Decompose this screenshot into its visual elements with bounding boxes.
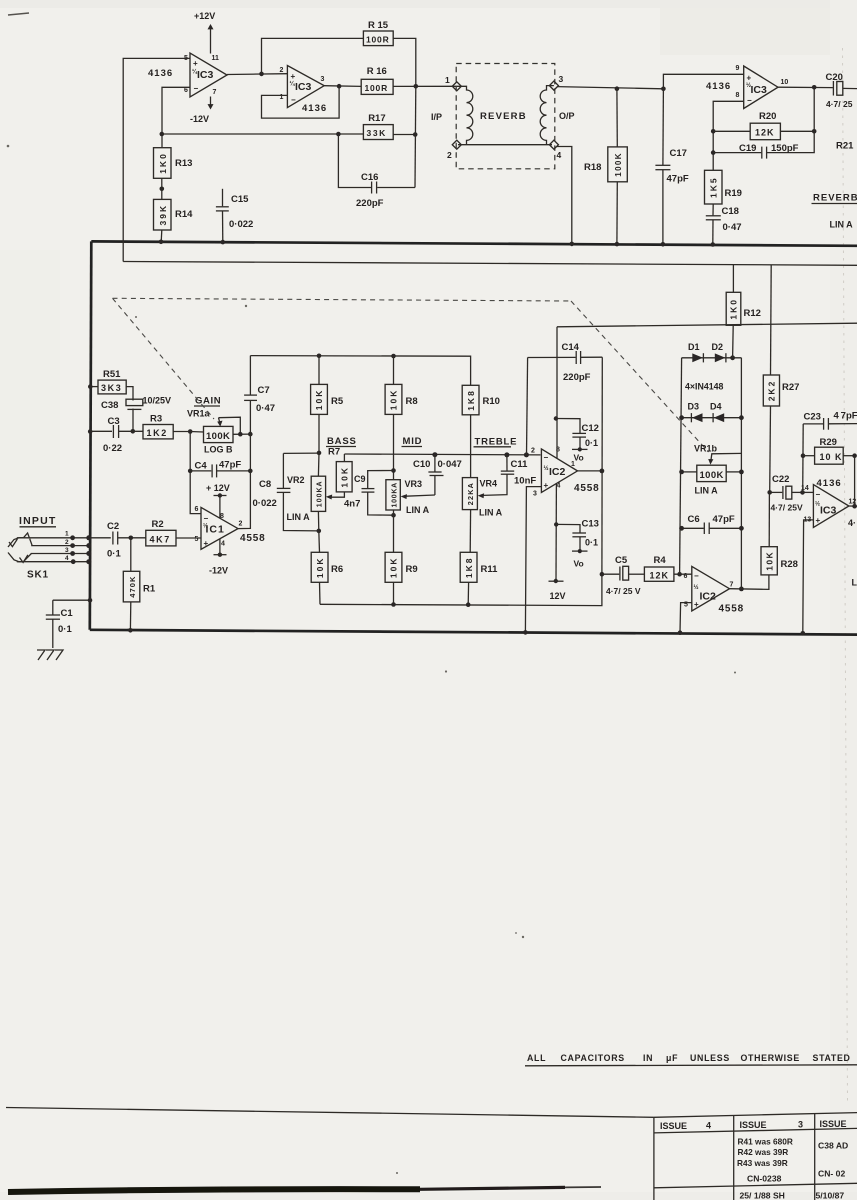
svg-text:C17: C17 (670, 148, 687, 159)
svg-text:−: − (694, 572, 699, 581)
svg-text:½: ½ (815, 501, 820, 508)
node on screen wall (88, 598, 93, 603)
note ALL CAPACITORS IN uF (525, 1053, 857, 1066)
svg-text:C3: C3 (108, 416, 120, 427)
wire tone input bus (250, 356, 470, 386)
svg-text:Vo: Vo (574, 453, 584, 463)
node IC3b output (337, 84, 342, 89)
+12V supply IC3a (194, 11, 215, 54)
node IC2a output (600, 469, 605, 474)
svg-text:4136: 4136 (817, 478, 842, 489)
wire drive node vertical (414, 86, 417, 187)
capacitor C7 (244, 356, 275, 414)
svg-text:STATED: STATED (813, 1053, 851, 1063)
svg-text:IC2: IC2 (549, 466, 566, 478)
svg-text:R43 was 39R: R43 was 39R (737, 1158, 788, 1168)
reverb transducer dashed box (456, 64, 555, 169)
svg-text:39K: 39K (158, 204, 168, 226)
wire reverb pin4 to ground bus (557, 147, 572, 244)
svg-text:C16: C16 (361, 172, 378, 183)
svg-text:1K0: 1K0 (158, 152, 168, 174)
svg-text:I/P: I/P (431, 112, 442, 122)
svg-text:R8: R8 (406, 396, 418, 407)
svg-text:C20: C20 (826, 72, 843, 83)
node pin4 ground (570, 242, 575, 247)
svg-text:R51: R51 (103, 369, 121, 380)
svg-text:3: 3 (559, 74, 564, 84)
wire IC3b output (324, 85, 361, 88)
capacitor C12 (554, 416, 599, 462)
node IC3c output (812, 85, 817, 90)
SK1 contact nodes column 2 (on screen wall) (86, 535, 91, 564)
potentiometer VR1a (190, 426, 250, 454)
wire R12 column to diode row (732, 326, 735, 358)
wire C4 left down to IC1 pin6 (190, 471, 201, 514)
svg-text:C7: C7 (258, 385, 270, 396)
node C10 top (432, 452, 437, 457)
svg-text:4136: 4136 (148, 68, 173, 79)
node R3/VR1a left (188, 429, 193, 434)
resistor R27 (763, 265, 799, 493)
node C4 right (248, 469, 253, 474)
svg-text:4K7: 4K7 (150, 535, 171, 545)
svg-text:+: + (544, 481, 549, 490)
svg-text:-12V: -12V (190, 114, 209, 124)
+12V supply IC1 (206, 483, 230, 519)
diode D3 (688, 402, 703, 423)
resistor R13 (154, 148, 193, 179)
node feedback drop (524, 452, 529, 457)
svg-text:D1: D1 (688, 342, 700, 352)
svg-text:3: 3 (65, 547, 69, 554)
svg-text:10K: 10K (339, 466, 349, 488)
svg-text:D4: D4 (710, 402, 722, 412)
svg-text:C19: C19 (739, 143, 756, 154)
wire pin13 to 0V (803, 520, 814, 633)
svg-text:R3: R3 (150, 414, 162, 425)
svg-text:C23: C23 (804, 412, 821, 423)
wire IC3b feedback loop (262, 86, 340, 118)
svg-text:47pF: 47pF (219, 460, 241, 471)
svg-text:½: ½ (544, 465, 549, 472)
svg-text:μF: μF (666, 1053, 678, 1063)
svg-text:100R: 100R (366, 35, 390, 45)
svg-text:+: + (747, 74, 752, 83)
wire diode bridge right column (740, 358, 742, 589)
wire feedback rail (C14) (528, 356, 576, 358)
wire IC2b output to R28 (730, 575, 769, 590)
node VR1b right (739, 470, 744, 475)
node R17 right (413, 132, 418, 137)
svg-text:4558: 4558 (240, 533, 265, 544)
wire IC3c inverting input (713, 101, 744, 170)
svg-text:100R: 100R (365, 83, 389, 93)
node R11 on pot bus (466, 602, 471, 607)
svg-text:4558: 4558 (574, 483, 599, 494)
op-amp IC3c (736, 65, 789, 109)
svg-text:C12: C12 (582, 423, 599, 434)
svg-text:4: 4 (557, 150, 562, 160)
svg-text:6: 6 (684, 573, 688, 580)
svg-text:4: 4 (221, 541, 225, 548)
svg-text:220pF: 220pF (356, 198, 384, 209)
node C6 right (739, 526, 744, 531)
diode D4 (710, 402, 724, 423)
resistor R4 (644, 555, 691, 581)
svg-text:6: 6 (195, 506, 199, 513)
VR2 wiper from R7 (326, 492, 345, 500)
svg-text:R11: R11 (481, 564, 499, 575)
node R13/R14 junction (160, 187, 165, 192)
reverb pin 2 (447, 140, 461, 160)
resistor R17 (363, 113, 393, 140)
svg-text:0·022: 0·022 (229, 219, 253, 230)
capacitor C15 (216, 189, 253, 242)
wire summing node (to IC2 pin2) (344, 453, 540, 456)
svg-text:SK1: SK1 (27, 570, 49, 581)
svg-text:1K5: 1K5 (709, 176, 719, 198)
scan crease (vertical faint dotted) (843, 48, 848, 1102)
node D3 row left (679, 415, 684, 420)
svg-text:LOG B: LOG B (204, 445, 233, 455)
svg-text:+: + (193, 59, 198, 68)
node IC3a output (259, 72, 264, 77)
resistor R8 (385, 356, 418, 480)
svg-text:2: 2 (239, 521, 243, 528)
jack plug lower (8, 553, 31, 563)
reverb pin 3 (549, 74, 563, 90)
svg-text:10nF: 10nF (514, 476, 536, 487)
svg-text:4136: 4136 (706, 81, 731, 92)
resistor R9 (385, 515, 418, 604)
wire C1 to screen wall (53, 599, 90, 601)
svg-text:R 15: R 15 (368, 20, 389, 31)
svg-text:+12V: +12V (194, 11, 215, 21)
svg-text:0·22: 0·22 (103, 443, 122, 454)
capacitor C18 (706, 204, 742, 245)
svg-text:1: 1 (445, 75, 450, 85)
svg-text:C9: C9 (354, 474, 366, 484)
node pin5 ground (678, 630, 683, 635)
svg-text:OTHERWISE: OTHERWISE (741, 1053, 800, 1063)
svg-text:4558: 4558 (719, 604, 744, 615)
svg-text:9: 9 (736, 65, 740, 72)
resistor R5 (311, 356, 344, 453)
resistor R15 (363, 20, 393, 46)
wire IC3a pin5 to ground rail (123, 58, 190, 261)
pin number labels SK1 (65, 531, 69, 563)
node C19 left (711, 150, 716, 155)
svg-text:C5: C5 (615, 555, 628, 566)
resistor R3 (143, 414, 190, 439)
node R4 right / diode column (677, 572, 682, 577)
node R20 right (812, 129, 817, 134)
svg-text:R17: R17 (368, 113, 385, 124)
capacitor C38 electrolytic (101, 387, 171, 432)
svg-text:LIN A: LIN A (406, 505, 430, 515)
svg-text:C38 AD: C38 AD (818, 1141, 848, 1151)
svg-text:R29: R29 (820, 437, 837, 448)
node VR1b left (679, 470, 684, 475)
ground symbol (37, 650, 63, 660)
dashed gang link horizontal (113, 298, 572, 301)
capacitor C3 (88, 416, 143, 454)
svg-text:4 7pF: 4 7pF (834, 411, 857, 422)
svg-text:5/10/87: 5/10/87 (816, 1191, 845, 1200)
VR3 wiper from C10 (401, 494, 435, 499)
resistor R51 (88, 369, 126, 394)
resistor R1 (123, 538, 156, 631)
wire R13 bottom to C15 (161, 178, 163, 199)
svg-text:4n7: 4n7 (344, 499, 360, 510)
svg-text:2K2: 2K2 (767, 380, 777, 402)
svg-text:R7: R7 (328, 447, 340, 458)
resistor R2 (146, 519, 201, 546)
svg-text:3: 3 (321, 76, 325, 83)
jack plug upper (8, 533, 32, 547)
wire R29 to output (854, 456, 856, 507)
svg-text:4: 4 (557, 483, 561, 490)
svg-text:100KA: 100KA (317, 480, 324, 507)
capacitor C4 (190, 460, 250, 478)
op-amp IC3d (801, 485, 856, 528)
svg-text:LIN A: LIN A (695, 486, 719, 496)
svg-text:+: + (204, 539, 209, 548)
node VR2 top (317, 451, 322, 456)
wire IC3c output (778, 86, 833, 88)
svg-text:10K: 10K (314, 389, 324, 411)
svg-text:0·1: 0·1 (585, 438, 598, 448)
svg-text:6: 6 (184, 87, 188, 94)
resistor R28 (761, 492, 798, 575)
reverb O/P coil (540, 86, 554, 145)
svg-text:1K0: 1K0 (729, 298, 739, 320)
svg-text:R 16: R 16 (367, 66, 387, 77)
node pin3 ground (523, 630, 528, 635)
svg-text:Vo: Vo (574, 559, 584, 569)
enclosure box top edge (ground bus) (91, 241, 857, 245)
svg-text:4: 4 (65, 555, 69, 562)
resistor R20 (713, 111, 814, 140)
-12V supply IC1 (209, 539, 228, 576)
enclosure box left edge (90, 241, 92, 629)
svg-text:C14: C14 (562, 342, 580, 353)
potentiometer VR4 (462, 478, 502, 553)
svg-text:100K: 100K (614, 152, 623, 177)
op-amp IC3b (280, 66, 325, 108)
svg-text:C13: C13 (582, 519, 599, 530)
node pin13 ground (801, 631, 806, 636)
enclosure box bottom edge (0V bus) (90, 630, 857, 635)
node C17 ground (661, 242, 666, 247)
svg-text:MID: MID (403, 436, 423, 447)
svg-text:C22: C22 (772, 474, 789, 485)
wire V- column (pin 4) (555, 483, 557, 581)
node R1 ground (128, 628, 133, 633)
svg-text:IC2: IC2 (700, 591, 717, 603)
resistor R12 (726, 265, 761, 326)
svg-text:C10: C10 (413, 459, 430, 470)
svg-text:3K3: 3K3 (101, 383, 122, 393)
wire diode top row (682, 357, 742, 359)
svg-text:LIN A: LIN A (287, 512, 311, 522)
svg-text:1K8: 1K8 (466, 389, 476, 411)
svg-text:8: 8 (736, 92, 740, 99)
capacitor C19 (713, 87, 814, 158)
resistor R14 (154, 199, 194, 230)
svg-text:½: ½ (746, 82, 751, 89)
capacitor C8 (parallel VR2) (253, 453, 320, 531)
svg-text:4·7/ 25: 4·7/ 25 (826, 99, 853, 109)
label BASS (326, 436, 357, 447)
svg-text:10K: 10K (764, 551, 774, 571)
svg-text:0·1: 0·1 (585, 538, 598, 548)
wire diode bottom row (682, 417, 742, 419)
svg-text:LIN A: LIN A (479, 508, 503, 518)
svg-text:4×IN4148: 4×IN4148 (685, 382, 724, 392)
wire pot return bus (320, 574, 602, 605)
capacitor C1 (46, 600, 74, 648)
svg-text:ISSUE: ISSUE (740, 1120, 767, 1130)
capacitor C23 (803, 411, 857, 430)
svg-text:100K: 100K (206, 431, 230, 442)
wire to IC3c noninverting input (663, 74, 743, 89)
svg-text:−: − (544, 453, 549, 462)
svg-text:R20: R20 (759, 111, 776, 122)
svg-text:R2: R2 (152, 519, 164, 530)
svg-text:IC3: IC3 (295, 81, 312, 93)
svg-text:C6: C6 (688, 514, 700, 525)
svg-text:R5: R5 (331, 396, 344, 407)
svg-text:R6: R6 (331, 564, 343, 575)
svg-text:10K: 10K (315, 557, 325, 579)
node R5 top (317, 354, 322, 359)
wire V+ rail column (pin 8) (556, 327, 558, 458)
svg-text:11: 11 (212, 55, 220, 62)
svg-text:½: ½ (694, 584, 699, 591)
dashed gang link to VR1a (113, 298, 215, 419)
svg-text:IN: IN (643, 1053, 653, 1063)
svg-text:CN-0238: CN-0238 (747, 1174, 782, 1184)
svg-text:ISSUE: ISSUE (820, 1119, 847, 1129)
svg-text:12V: 12V (550, 591, 566, 601)
svg-text:150pF: 150pF (771, 143, 799, 154)
wire output column (601, 357, 603, 574)
wire IC2b pin5 to 0V (680, 603, 692, 633)
svg-text:5: 5 (195, 536, 199, 543)
svg-text:3: 3 (798, 1120, 803, 1130)
node output / diode column right (739, 587, 744, 592)
svg-text:0·47: 0·47 (256, 403, 275, 414)
capacitor C9 (parallel VR3) (344, 471, 394, 516)
capacitor C16 (336, 132, 415, 209)
label GAIN (194, 396, 221, 407)
title block frame (654, 1113, 857, 1200)
svg-text:C11: C11 (511, 459, 529, 470)
label INPUT (19, 515, 57, 527)
diode D1 (688, 342, 703, 362)
svg-text:VR2: VR2 (287, 475, 305, 485)
svg-text:0·1: 0·1 (58, 624, 72, 635)
svg-text:+ 12V: + 12V (206, 483, 230, 493)
svg-text:−: − (747, 96, 752, 105)
svg-text:-12V: -12V (209, 566, 228, 576)
wire SK1 row3 (31, 553, 89, 555)
svg-text:REVERB: REVERB (480, 111, 527, 122)
capacitor C22 electrolytic (770, 474, 803, 513)
label TREBLE (474, 436, 518, 447)
node C4 left (188, 469, 193, 474)
svg-text:8: 8 (220, 513, 224, 520)
svg-text:10K: 10K (389, 389, 399, 411)
svg-text:−: − (816, 490, 821, 499)
resistor R10 (462, 385, 500, 477)
svg-text:+: + (291, 72, 296, 81)
svg-text:12K: 12K (755, 128, 775, 138)
svg-text:47pF: 47pF (713, 514, 735, 525)
node C17 top (661, 87, 666, 92)
svg-text:R13: R13 (175, 158, 192, 169)
wire R16 to reverb drive node (393, 85, 457, 87)
resistor R16 (361, 66, 393, 94)
reverb pin 4 (549, 140, 561, 160)
wire VR1a left down to C4 (189, 432, 191, 471)
capacitor C5 electrolytic (602, 555, 645, 596)
VR1a wiper (217, 417, 240, 434)
svg-text:100KA: 100KA (391, 482, 398, 507)
reverb pin 1 (445, 75, 461, 91)
dashed gang link to VR1b (571, 301, 709, 452)
svg-text:VR4: VR4 (480, 479, 498, 489)
node output right edge (852, 504, 857, 509)
svg-text:22KA: 22KA (466, 482, 475, 505)
svg-text:LIN A: LIN A (830, 220, 854, 230)
svg-text:7: 7 (213, 89, 217, 96)
svg-text:1K2: 1K2 (147, 428, 168, 438)
svg-text:1K8: 1K8 (464, 557, 474, 579)
wire feedback row to R17 (162, 133, 364, 135)
drawing frame bottom line (6, 1108, 654, 1118)
svg-text:4: 4 (706, 1121, 711, 1131)
potentiometer VR2 (287, 453, 326, 531)
capacitor C2 (107, 521, 146, 560)
svg-text:+: + (694, 600, 699, 609)
svg-text:4·7/ 25V: 4·7/ 25V (771, 503, 803, 513)
svg-text:R21: R21 (836, 141, 854, 152)
node C2/R1 (129, 536, 134, 541)
wire diode bridge left column (680, 358, 682, 574)
black scan bar bottom left (8, 1187, 601, 1192)
svg-text:C38: C38 (101, 400, 118, 411)
svg-text:R42 was 39R: R42 was 39R (738, 1147, 789, 1157)
node C38/C3/R3 (131, 429, 136, 434)
wire R15 right to drive node (393, 38, 416, 86)
reverb I/P coil (457, 86, 473, 144)
capacitor C17 (655, 89, 688, 245)
wire R17 right (393, 134, 415, 136)
svg-text:12K: 12K (650, 571, 670, 581)
capacitor C14 (562, 342, 603, 383)
paper specks (7, 145, 736, 1174)
svg-text:10K: 10K (389, 557, 399, 579)
svg-text:47pF: 47pF (667, 174, 689, 185)
svg-text:R28: R28 (781, 559, 798, 570)
wire SK1 row2 (31, 545, 89, 547)
svg-text:INPUT: INPUT (19, 515, 57, 527)
svg-text:L: L (852, 578, 857, 588)
svg-text:+: + (816, 516, 821, 525)
svg-text:IC1: IC1 (206, 524, 225, 536)
